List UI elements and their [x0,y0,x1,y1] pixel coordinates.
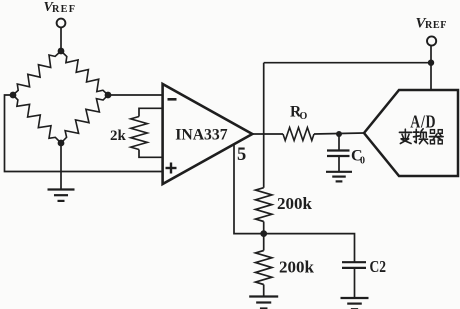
resistor RO [283,128,314,141]
plus input symbol [166,167,177,169]
bridge resistor bottom-left [13,95,61,143]
wire op-amp output [252,133,283,135]
wire VREF top horizontal [264,62,431,64]
op-amp U1 INA337 [163,84,253,184]
wire pin5 to divider node [234,144,264,233]
resistor R1 200k [256,188,272,222]
node bridge left [10,92,17,99]
capacitor CO [338,134,340,150]
wire bridge left to +input rail [5,95,163,172]
node RO/CO junction [336,131,342,137]
resistor R2 200k [263,234,265,251]
svg-text:INA337: INA337 [175,127,227,144]
bridge resistor bottom-right [61,95,108,143]
svg-text:200k: 200k [277,194,313,213]
VREF terminal (left) [57,19,66,28]
wire bridge right to -input [108,94,163,96]
VREF terminal (right) [427,36,436,45]
svg-text:REF: REF [425,20,447,31]
svg-text:2k: 2k [110,128,127,144]
wire VREF terminal to node [430,46,432,63]
ground (CO) [326,171,352,173]
node bridge right [105,92,112,99]
svg-text:REF: REF [52,4,75,15]
svg-text:200k: 200k [279,258,315,277]
node bridge top [58,48,65,55]
node bridge bottom [58,140,65,147]
resistor RG 2k top stub [139,108,163,116]
node VREF/AD junction [428,60,434,66]
ground (C2) [341,297,369,299]
capacitor C2 [342,261,366,263]
wire bridge bottom to ground [60,143,62,190]
svg-text:0: 0 [360,156,365,167]
minus input symbol [168,98,177,101]
ground (R2) [249,295,278,297]
wire divider to C2 [264,234,355,263]
A/D converter block [364,90,458,176]
wire RO to A/D [314,133,364,134]
wire VREF vertical to divider (crosses output) [263,63,265,188]
bridge resistor top-right [61,51,108,95]
resistor RG 2k bottom stub [139,150,163,158]
bridge resistor top-left [13,51,61,95]
node divider midpoint [260,230,267,237]
svg-text:C2: C2 [370,259,387,276]
ground (bridge) [48,188,75,190]
resistor RG 2k [131,117,148,150]
svg-text:5: 5 [237,145,246,165]
wire VREF to bridge top [60,27,62,51]
wire node to A/D top [430,63,432,90]
label 变换器 (converter) hand-drawn strokes [399,129,443,144]
svg-text:O: O [300,111,308,122]
